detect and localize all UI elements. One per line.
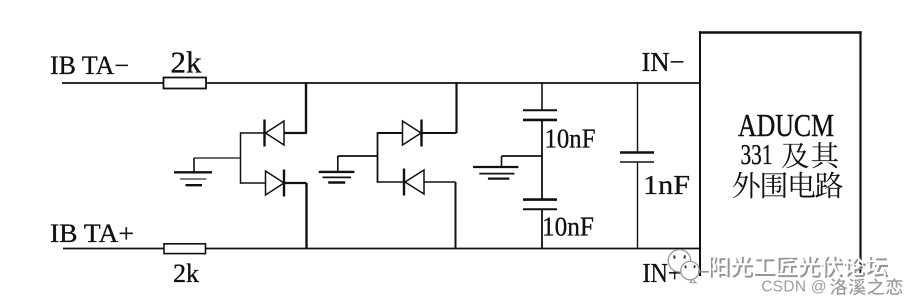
diode D3 (top middle pair, pointing right) (378, 120, 457, 147)
block U1 ADUCM331 box (top edge) (699, 31, 862, 33)
diode D4 (bottom middle pair, pointing left) (378, 169, 456, 196)
watermark icon (two chat faces) (668, 250, 710, 283)
wire bottom rail IN+ net (main segment) (206, 248, 701, 250)
svg-text:IB TA+: IB TA+ (50, 219, 134, 248)
wire ground stub pair 2 (338, 155, 378, 157)
svg-text:10nF: 10nF (542, 210, 594, 241)
wire node A vertical (left side of pair 1) (240, 132, 242, 184)
resistor R2 2k (bottom) (164, 244, 206, 254)
svg-text:CSDN @: CSDN @ (761, 279, 827, 296)
wire node B vertical (left side of pair 2) (377, 132, 379, 183)
svg-text:1nF: 1nF (643, 169, 690, 200)
svg-text:10nF: 10nF (545, 122, 596, 153)
wire top rail IN- net (main segment) (206, 82, 700, 84)
capacitor C3 1nF (620, 153, 654, 163)
resistor R1 2k (top) (164, 78, 207, 89)
wire top rail IN- net (left segment) (62, 82, 164, 84)
wire ground stub pair 1 (194, 157, 241, 159)
wire bottom rail IN+ net (left segment) (63, 248, 164, 250)
label U1 line 2 331及其 (741, 140, 838, 171)
wire from C2 down to bottom rail (541, 209, 543, 249)
wire between C1 and C2 (541, 120, 543, 200)
watermark text CSDN @洛溪之恋 (760, 277, 903, 296)
capacitor C2 10nF (523, 200, 557, 210)
ground GND3 (473, 156, 518, 179)
capacitor C1 10nF (523, 110, 557, 120)
svg-text:IN−: IN− (642, 46, 685, 77)
wire ground stub capacitors (502, 155, 543, 157)
diode D2 (bottom left pair, pointing right) (241, 170, 307, 197)
svg-text:331: 331 (741, 140, 773, 171)
svg-text:2k: 2k (171, 45, 203, 80)
ground GND2 (319, 156, 355, 183)
ground GND1 (174, 158, 212, 185)
diode D1 (top left pair, pointing left) (241, 120, 307, 147)
label U1 line 3 外围电路 (733, 172, 843, 199)
wire from top rail down to D1 (305, 82, 307, 133)
svg-text:ADUCM: ADUCM (738, 108, 834, 143)
block U1 ADUCM331 box (left edge) (699, 31, 701, 276)
svg-text:2k: 2k (173, 259, 199, 288)
wire from top rail to C1 (541, 82, 543, 111)
wire from top rail down to D3 (455, 82, 457, 133)
wire from D4 down to bottom rail (455, 182, 457, 249)
wire from D2 down to bottom rail (305, 183, 307, 249)
wire from C3 down to bottom rail (637, 162, 639, 249)
wire from top rail to C3 (637, 82, 639, 153)
block U1 ADUCM331 box (right edge) (859, 31, 861, 273)
svg-text:IB TA−: IB TA− (50, 51, 129, 80)
watermark text 阳光工匠光伏论坛 (709, 255, 889, 278)
